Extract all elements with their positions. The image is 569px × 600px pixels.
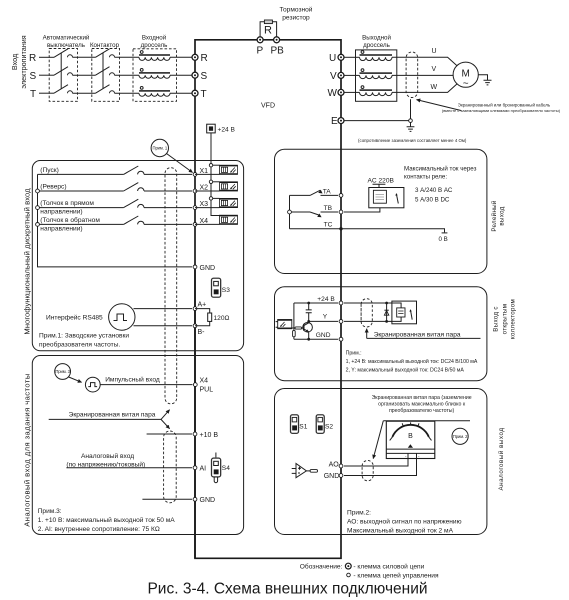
wire labels U V W [431, 48, 438, 91]
cable callout text [442, 102, 561, 113]
svg-text:электропитания: электропитания [19, 35, 28, 88]
node label Вход электропитания [10, 35, 28, 88]
wire S phase input [39, 74, 54, 76]
braking resistor label [280, 6, 313, 22]
svg-text:коллектором: коллектором [510, 299, 517, 339]
junction emitter GND [307, 338, 310, 341]
svg-text:- клемма цепей управления: - клемма цепей управления [353, 571, 439, 579]
contact TA [310, 188, 331, 195]
switch SB2 wire [38, 190, 193, 192]
svg-text:(Реверс): (Реверс) [40, 183, 66, 190]
svg-text:U: U [329, 53, 336, 64]
terminal X3 [193, 201, 208, 209]
terminal +24V [339, 301, 343, 305]
svg-text:+24 В: +24 В [317, 296, 335, 303]
cable shield oc [361, 299, 372, 327]
svg-text:направлении): направлении) [40, 209, 82, 216]
svg-text:выключатель: выключатель [47, 42, 85, 49]
svg-text:Входной: Входной [142, 35, 167, 42]
wire +24V [294, 302, 392, 304]
svg-text:2, Y: максимальный выходной то: 2, Y: максимальный выходной ток: DC24 В/… [346, 367, 465, 374]
terminal GND [193, 265, 215, 272]
terminal S [192, 72, 198, 78]
wire S choke to terminal [170, 74, 192, 76]
motor ground [478, 75, 491, 85]
wire T contactor to choke [115, 92, 140, 94]
DAC amplifier [292, 464, 318, 478]
svg-text:Контактор: Контактор [90, 42, 120, 49]
input choke label [141, 35, 168, 50]
svg-text:S: S [30, 71, 37, 82]
optocoupler U2 [195, 180, 238, 191]
relay ratings text [404, 166, 477, 204]
svg-text:Экранированный или бронированн: Экранированный или бронированный кабель [458, 102, 551, 107]
contactor linkage [102, 53, 104, 89]
braking resistor R1 [260, 20, 277, 37]
breaker pole S [54, 67, 73, 76]
wire +10V [147, 433, 192, 435]
svg-text:Тормозной: Тормозной [280, 6, 313, 14]
svg-text:выход: выход [499, 206, 506, 225]
resistor 120 Ohm [195, 309, 230, 326]
svg-text:W: W [431, 84, 438, 91]
inductor L4 [360, 51, 393, 61]
note 2 balloon [452, 428, 468, 444]
relay K1 [368, 177, 404, 208]
terminal +10V [193, 432, 218, 439]
wire S contactor to choke [115, 74, 140, 76]
svg-text:T: T [201, 89, 207, 100]
inductor L6 [360, 86, 393, 96]
breaker linkage [60, 53, 62, 89]
flyback diode D1 [384, 302, 388, 323]
wire R phase input [39, 56, 54, 58]
svg-text:TA: TA [323, 188, 332, 195]
shield callout oc [367, 332, 481, 339]
svg-text:GND: GND [200, 497, 216, 504]
wire V to motor [392, 74, 453, 76]
motor cable shield [406, 52, 418, 98]
note 1 arrow to X1 [167, 154, 193, 173]
svg-text:контакты реле:: контакты реле: [404, 174, 447, 181]
svg-text:AI: AI [200, 466, 207, 473]
wire W to motor [392, 84, 457, 93]
inductor L5 [360, 69, 393, 79]
output choke label [362, 35, 391, 50]
contactor pole R [96, 49, 115, 58]
svg-text:X2: X2 [200, 185, 209, 192]
switch SB1 wire [38, 173, 193, 175]
optocoupler U1 [195, 164, 238, 175]
svg-text:E: E [331, 116, 338, 127]
note oc text [346, 350, 478, 373]
wire TA [290, 194, 339, 196]
svg-text:Вход: Вход [10, 53, 19, 70]
svg-text:Прим. 3: Прим. 3 [55, 369, 70, 374]
switch SB4 wire [38, 223, 193, 225]
wire V terminal to choke [344, 74, 360, 76]
note 1 text [39, 333, 129, 349]
label Толчок в обратном направлении [40, 216, 100, 233]
svg-text:(сопротивление заземления сост: (сопротивление заземления составляет мен… [358, 138, 467, 143]
svg-text:Выход с: Выход с [493, 306, 500, 331]
terminal TB [339, 210, 343, 214]
terminal X2 [193, 185, 208, 193]
wire pulse to X4 [100, 384, 192, 386]
base resistor [292, 327, 304, 329]
switch SB2 [124, 183, 144, 191]
inductor L1 [139, 51, 170, 61]
svg-text:Выходной: Выходной [362, 35, 391, 42]
note 2 text [347, 510, 462, 535]
wire GND analog [142, 498, 192, 500]
svg-text:Аналоговый вход: Аналоговый вход [81, 452, 134, 460]
svg-text:дроссель: дроссель [141, 42, 168, 49]
svg-text:R: R [264, 25, 272, 37]
svg-text:+24 В: +24 В [218, 127, 236, 134]
label Толчок в прямом направлении [40, 200, 94, 216]
circuit breaker dashed box [49, 49, 77, 102]
switch SB4 [124, 216, 144, 224]
svg-text:Прим.3:: Прим.3: [38, 508, 62, 515]
switch SB3 wire [38, 207, 193, 209]
terminal AO [339, 464, 343, 468]
analog output box [275, 389, 487, 535]
wire Y [309, 320, 392, 322]
svg-text:Экранированная витая пара: Экранированная витая пара [374, 332, 461, 339]
DIP switch S4 [212, 453, 231, 483]
wire TB to relay coil [344, 208, 380, 212]
open collector output box [275, 287, 487, 381]
+24V rail to optocouplers [211, 133, 220, 216]
wire AO [344, 459, 408, 467]
analog input box [32, 356, 243, 535]
svg-text:Аналоговый вход для задания ча: Аналоговый вход для задания частоты [23, 373, 32, 526]
RS485 interface [46, 304, 135, 330]
terminal PB [274, 37, 280, 43]
wire TB [291, 211, 338, 213]
svg-text:Интерфейс RS485: Интерфейс RS485 [46, 314, 103, 322]
inductor L3 [139, 87, 170, 97]
svg-text:AO: AO [329, 462, 340, 469]
svg-text:X4: X4 [200, 378, 209, 385]
terminal T [192, 90, 198, 96]
breaker pole R [54, 49, 73, 58]
terminal TA [339, 194, 343, 198]
breaker pole T [54, 85, 73, 94]
svg-text:Экранированная витая пара: Экранированная витая пара [69, 412, 156, 419]
svg-text:U: U [432, 48, 437, 55]
VFD left edge lower segment [194, 174, 196, 558]
svg-text:B-: B- [198, 329, 206, 336]
terminal W [338, 89, 344, 95]
terminal R [192, 54, 198, 60]
pulse source [85, 377, 100, 392]
voltmeter PV1 [386, 421, 435, 459]
wire AI [66, 467, 192, 469]
terminal GND analog [193, 497, 215, 504]
svg-text:S2: S2 [325, 423, 333, 430]
note 3 arrow [68, 377, 81, 382]
svg-text:GND: GND [316, 332, 331, 339]
wire U terminal to choke [344, 56, 360, 58]
svg-text:R: R [201, 53, 208, 64]
wire U to motor [392, 57, 457, 66]
svg-text:5 А/30 В DC: 5 А/30 В DC [415, 196, 450, 203]
shield callout line ao [383, 420, 470, 422]
twisted pair leader [49, 418, 161, 420]
motor M1 [453, 62, 478, 89]
svg-text:организовать максимально близк: организовать максимально близко к [378, 402, 466, 408]
terminal GND ao [339, 474, 343, 478]
DIP switch S3 [212, 278, 231, 297]
svg-text:GND: GND [200, 265, 216, 272]
svg-text:T: T [30, 89, 36, 100]
svg-text:Прим. 2: Прим. 2 [453, 434, 468, 439]
DIP switch S1 [291, 415, 308, 434]
svg-text:~: ~ [463, 79, 469, 90]
cable callout arrow [417, 100, 462, 111]
0V reference bar [439, 233, 448, 243]
svg-text:Автоматический: Автоматический [43, 35, 90, 42]
svg-text:резистор: резистор [282, 15, 310, 22]
external relay load [392, 301, 417, 324]
pull rail [293, 303, 295, 330]
junction TC [339, 227, 342, 230]
wire S breaker to contactor [73, 74, 96, 76]
bus junction X4 [36, 223, 40, 227]
terminal A+ [193, 302, 206, 311]
wire R contactor to choke [115, 56, 140, 58]
cable shield ao [362, 460, 373, 480]
svg-text:X4: X4 [200, 218, 209, 225]
svg-text:V: V [432, 66, 437, 73]
optocoupler U3 [195, 197, 238, 208]
svg-text:направлении): направлении) [40, 225, 82, 232]
twisted pair arrow down [161, 419, 170, 428]
svg-text:+10 В: +10 В [200, 432, 219, 439]
svg-text:В: В [408, 433, 413, 440]
svg-text:X3: X3 [200, 201, 209, 208]
svg-text:A+: A+ [198, 302, 207, 309]
zener element [306, 303, 312, 321]
svg-text:Максимальный выходной ток 2 мА: Максимальный выходной ток 2 мА [347, 526, 454, 534]
wire shield to junction [410, 99, 412, 119]
svg-text:PUL: PUL [200, 387, 214, 394]
optocoupler U4 [195, 215, 238, 224]
svg-text:Релейный: Релейный [491, 200, 498, 232]
terminal GND oc [339, 337, 343, 341]
input choke dashed box [133, 49, 177, 102]
svg-text:(по напряжению/токовый): (по напряжению/токовый) [66, 460, 145, 468]
svg-text:(вместе с заземляющими клеммам: (вместе с заземляющими клеммами преобраз… [442, 108, 561, 113]
shield callout arrow oc [366, 329, 368, 339]
terminal letters R S T inside [201, 53, 208, 100]
svg-text:1. +10 В: максимальный выходно: 1. +10 В: максимальный выходной ток 50 м… [38, 516, 176, 524]
note 1 balloon [151, 139, 168, 156]
wire W terminal to choke [344, 91, 360, 93]
svg-text:S: S [201, 71, 208, 82]
cable shield discrete inputs [165, 168, 177, 404]
rail resistor lead [293, 337, 295, 339]
wire TC [290, 229, 445, 233]
relay contacts bus [289, 195, 291, 228]
inductor L2 [139, 69, 170, 79]
junction +24V divider [307, 302, 310, 305]
svg-text:V: V [330, 71, 337, 82]
relay output box [275, 149, 487, 273]
cable shield analog inputs [164, 431, 177, 503]
svg-text:VFD: VFD [261, 103, 275, 110]
contactor pole T [96, 85, 115, 94]
switch SB3 [124, 199, 144, 207]
svg-text:преобразователя частоты.: преобразователя частоты. [39, 340, 120, 348]
output choke box [356, 50, 397, 101]
terminal Y [339, 320, 343, 324]
earth ground symbol [407, 122, 415, 131]
wire B- [134, 325, 193, 327]
contact TB [310, 205, 333, 217]
svg-text:0 В: 0 В [439, 236, 448, 243]
switch SB1 [124, 166, 144, 174]
terminal V [338, 72, 344, 78]
svg-text:X1: X1 [200, 168, 209, 175]
optocoupler U5 [276, 320, 292, 329]
svg-text:(Пуск): (Пуск) [40, 167, 59, 174]
terminal letters U V W E [328, 53, 339, 127]
transistor Q1 [303, 321, 313, 339]
bus junction X3 [36, 206, 40, 210]
VFD enclosure outline [195, 40, 341, 559]
svg-text:дроссель: дроссель [363, 42, 390, 49]
svg-text:2. AI: внутреннее сопротивлени: 2. AI: внутреннее сопротивление: 75 КΩ [38, 526, 160, 533]
svg-text:открытым: открытым [501, 304, 508, 335]
terminal X4 PUL [193, 378, 213, 394]
wire T choke to terminal [170, 92, 192, 94]
svg-text:(Толчок в прямом: (Толчок в прямом [40, 200, 94, 207]
svg-text:Импульсный вход: Импульсный вход [105, 376, 160, 384]
svg-text:АО: выходной сигнал по напряже: АО: выходной сигнал по напряжению [347, 518, 462, 526]
svg-text:PB: PB [271, 46, 285, 57]
svg-text:- клемма силовой цепи: - клемма силовой цепи [353, 562, 424, 570]
phase letters R S T [29, 53, 37, 100]
svg-text:S4: S4 [222, 465, 230, 472]
svg-text:Прим.1: Заводские установки: Прим.1: Заводские установки [39, 333, 129, 340]
contactor pole S [96, 67, 115, 76]
terminal AI [193, 466, 206, 473]
shield note text [372, 395, 472, 414]
svg-text:Y: Y [323, 313, 328, 320]
svg-text:Прим.:: Прим.: [346, 350, 362, 356]
svg-text:(Толчок в обратном: (Толчок в обратном [40, 216, 100, 224]
terminal B- [193, 324, 205, 336]
svg-text:Рис. 3-4. Схема внешних подклю: Рис. 3-4. Схема внешних подключений [147, 581, 427, 598]
+24V source square [207, 124, 236, 133]
rail resistor [293, 330, 296, 336]
svg-text:Прим.2:: Прим.2: [347, 510, 371, 517]
terminal U [338, 54, 344, 60]
terminal X1 [193, 168, 208, 176]
contactor dashed box [92, 49, 120, 102]
terminal letters P PB [257, 46, 285, 57]
note 3 text [38, 508, 176, 533]
common bus [38, 174, 193, 267]
side label Выход с открытым коллектором [493, 299, 517, 339]
DIP switch S2 [316, 415, 333, 434]
wire E to shield [344, 120, 409, 122]
svg-text:S1: S1 [299, 423, 307, 430]
bus junction X2 [36, 189, 40, 193]
svg-text:TC: TC [324, 222, 333, 229]
svg-text:P: P [257, 46, 264, 57]
svg-text:Аналоговый выход: Аналоговый выход [498, 427, 505, 490]
terminal P [257, 37, 263, 43]
terminal E [338, 118, 344, 124]
svg-text:R: R [29, 53, 36, 64]
wire T phase input [39, 92, 54, 94]
wire A+ [134, 308, 193, 310]
label Аналоговый вход [66, 452, 145, 468]
svg-text:1, +24 В: максимальный выходно: 1, +24 В: максимальный выходной ток: DC2… [346, 358, 478, 365]
bus junction TB [288, 210, 292, 214]
svg-text:Многофункциональный дискретный: Многофункциональный дискретный вход [23, 188, 32, 335]
terminal X4 [193, 218, 208, 226]
circuit breaker label [43, 35, 90, 50]
svg-text:Экранированная витая пара (заз: Экранированная витая пара (заземление [372, 395, 472, 401]
svg-text:GND: GND [324, 473, 340, 480]
side label Релейный выход [491, 200, 506, 232]
wire R breaker to contactor [73, 56, 96, 58]
shield drain junction [409, 119, 413, 123]
wire GND ao [344, 459, 417, 476]
svg-text:TB: TB [324, 205, 333, 212]
svg-text:S3: S3 [222, 287, 230, 294]
svg-text:преобразователю частоты): преобразователю частоты) [389, 408, 455, 414]
svg-text:Прим. 1: Прим. 1 [153, 146, 168, 151]
note 3 balloon [55, 364, 71, 380]
svg-text:AC 220В: AC 220В [368, 177, 395, 184]
svg-text:Обозначение:: Обозначение: [300, 562, 343, 570]
svg-text:3 А/240 В АС: 3 А/240 В АС [415, 187, 453, 194]
twisted pair arrow up [161, 410, 170, 420]
wire GND oc [294, 338, 338, 340]
shield callout arrow ao [373, 421, 383, 459]
wire T breaker to contactor [73, 92, 96, 94]
svg-text:120Ω: 120Ω [214, 315, 230, 322]
multifunction input box [32, 161, 243, 351]
legend [300, 562, 439, 579]
svg-text:W: W [328, 88, 338, 99]
junction Y [307, 320, 310, 323]
svg-text:Максимальный ток через: Максимальный ток через [404, 166, 477, 173]
wire R choke to terminal [170, 56, 192, 58]
